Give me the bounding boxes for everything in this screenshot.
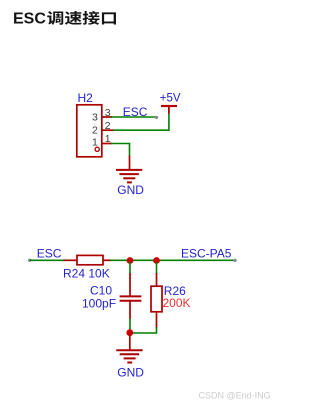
wire junction to C10	[129, 262, 131, 274]
pin 2	[92, 120, 114, 136]
wire C10 to bottom node	[129, 319, 131, 334]
wire ESC to R24	[30, 259, 65, 261]
svg-text:1: 1	[105, 133, 111, 145]
junction node at C10	[127, 257, 134, 264]
wire R26 to bottom node	[130, 327, 157, 333]
ground GND bottom	[116, 334, 142, 363]
svg-text:ESC: ESC	[37, 247, 62, 261]
svg-text:200K: 200K	[163, 296, 191, 310]
svg-text:ESC-PA5: ESC-PA5	[181, 247, 232, 261]
junction bottom node	[126, 329, 133, 336]
svg-text:3: 3	[105, 107, 111, 119]
junction node at R26	[153, 257, 160, 264]
node left endpoint of ESC wire	[28, 259, 31, 262]
resistor R24	[64, 255, 112, 264]
wire pin1 to GND	[111, 144, 130, 157]
ground GND top	[116, 156, 142, 183]
svg-text:CSDN @End-ING: CSDN @End-ING	[199, 390, 271, 400]
svg-text:1: 1	[92, 137, 98, 149]
svg-text:ESC: ESC	[13, 11, 46, 28]
pin 3	[92, 107, 112, 124]
svg-text:100pF: 100pF	[82, 297, 116, 311]
power +5V	[161, 106, 177, 114]
connector H2	[77, 105, 102, 157]
resistor R26	[151, 273, 162, 328]
pin 1	[92, 133, 112, 148]
wire pin2 to +5V	[113, 113, 169, 130]
wire junction to R26	[156, 262, 158, 274]
svg-text:GND: GND	[117, 183, 144, 197]
wire R24 to ESC-PA5	[110, 259, 234, 261]
svg-text:R24 10K: R24 10K	[63, 266, 110, 280]
svg-text:H2: H2	[78, 91, 94, 105]
svg-text:3: 3	[92, 112, 98, 124]
svg-text:ESC: ESC	[123, 105, 148, 119]
svg-text:GND: GND	[117, 365, 144, 379]
wire pin3 to ESC	[111, 116, 157, 118]
capacitor C10	[120, 273, 142, 319]
title ESC调速接口	[13, 11, 116, 28]
svg-text:+5V: +5V	[160, 92, 181, 104]
svg-text:2: 2	[105, 120, 111, 132]
svg-text:2: 2	[92, 124, 98, 136]
svg-text:C10: C10	[90, 284, 112, 298]
node right endpoint	[233, 259, 236, 262]
node ESC wire endpoint	[155, 116, 158, 119]
